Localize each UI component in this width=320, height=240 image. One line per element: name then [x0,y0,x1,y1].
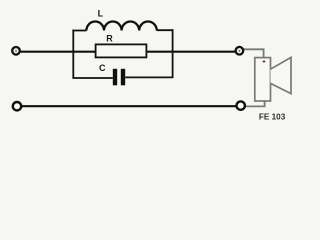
terminal output + (top-right) [236,47,244,55]
wire speaker positive lead (gray) [243,49,264,58]
wire inductor top-left segment [72,30,86,32]
speaker cone [271,57,292,93]
svg-text:R: R [106,33,113,43]
svg-text:FE 103: FE 103 [259,113,286,122]
wire bottom horizontal (input - to output -) [21,105,238,107]
inductor L [86,21,156,30]
svg-text:L: L [98,8,104,18]
wire capacitor left segment [72,77,112,79]
terminal input + (top-left) [12,47,20,55]
speaker polarity + mark [263,60,266,63]
wire top horizontal (input + to network to output +) [20,51,237,53]
svg-text:C: C [99,63,106,73]
capacitor C plate 2 [121,69,125,86]
terminal input - (bottom-left) [13,102,21,110]
wire left branch vertical (junction node A) [72,30,74,78]
wire inductor top-right segment [157,29,174,31]
terminal output - (bottom-right) [237,101,245,109]
wire capacitor right segment [125,76,173,78]
speaker driver body [255,58,271,101]
capacitor C plate 1 [113,69,117,86]
resistor R [96,44,147,57]
wire right branch vertical (junction node B) [172,29,174,77]
wire speaker negative lead (gray) [245,101,265,107]
